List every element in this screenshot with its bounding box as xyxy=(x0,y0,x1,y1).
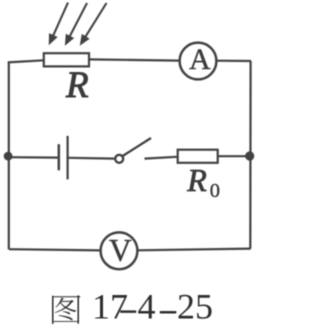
svg-text:4: 4 xyxy=(138,287,156,327)
caption: 图 17-4-25 xyxy=(52,287,213,327)
caption text 17-4-25 xyxy=(92,287,213,327)
caption character 图 xyxy=(52,295,81,324)
svg-text:R: R xyxy=(186,162,207,198)
wire: left node to battery xyxy=(8,156,58,159)
wire: switch to R0 xyxy=(145,157,178,159)
wire: right vertical xyxy=(249,61,252,249)
wire: left vertical xyxy=(8,62,10,250)
light arrow 1 xyxy=(49,3,68,44)
voltmeter V circle xyxy=(101,232,138,269)
light arrow 2 xyxy=(66,3,87,44)
svg-text:17: 17 xyxy=(92,287,128,327)
svg-text:25: 25 xyxy=(177,287,213,327)
node right junction dot xyxy=(245,151,254,160)
wire: R to ammeter xyxy=(89,59,180,60)
wire: R0 to right node xyxy=(218,155,250,157)
wire: bottom left to voltmeter xyxy=(9,249,101,250)
resistor R (photoresistor box) xyxy=(44,53,89,66)
wire: top-left horizontal to R xyxy=(8,60,44,62)
light arrows onto photoresistor R xyxy=(49,3,106,45)
svg-text:V: V xyxy=(109,233,132,268)
ammeter A circle xyxy=(180,43,217,80)
wire: battery to switch xyxy=(69,157,115,160)
switch lever xyxy=(123,138,151,156)
light arrow 3 xyxy=(81,3,107,44)
svg-text:A: A xyxy=(189,43,211,76)
wire: voltmeter to bottom-right corner xyxy=(137,249,250,251)
battery positive plate (long) xyxy=(66,136,68,180)
svg-text:0: 0 xyxy=(210,180,220,202)
switch pivot circle xyxy=(115,155,123,163)
battery negative plate (short) xyxy=(58,144,61,170)
node left junction dot xyxy=(4,152,13,161)
svg-text:R: R xyxy=(65,65,89,106)
wire: ammeter to top-right corner xyxy=(216,60,251,62)
resistor R0 box xyxy=(178,150,218,163)
